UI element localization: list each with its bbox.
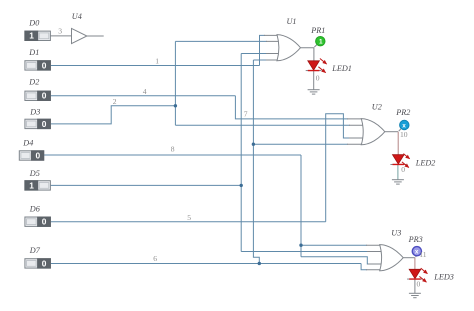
svg-text:11: 11 [419,250,427,259]
wire D0 to U4 input [50,35,71,37]
svg-text:4: 4 [143,87,147,96]
probe PR1 [310,26,325,46]
wire net8 branch to U3 pin3 [301,257,369,264]
svg-text:0: 0 [36,150,41,160]
wire net2 bottom run to U2 pin2 [175,124,350,126]
svg-text:1: 1 [155,57,159,66]
svg-text:U1: U1 [287,17,297,26]
wire U2 pin4 branch [253,143,348,145]
junction node net2 [174,104,177,107]
switch D4 value 0 [19,139,43,161]
svg-text:D3: D3 [29,107,40,116]
wire U2 output drop to LED2 [397,132,399,155]
led LED1 [306,59,352,73]
svg-text:x: x [415,249,419,256]
svg-text:1: 1 [29,31,34,41]
junction node net8 [299,244,302,247]
svg-text:PR1: PR1 [310,26,325,35]
ground below LED1 [308,90,320,94]
svg-text:0: 0 [42,119,47,129]
svg-text:0: 0 [417,279,421,288]
svg-text:1: 1 [29,180,34,190]
pin stubs U3 [366,245,382,270]
svg-text:D6: D6 [29,205,41,214]
svg-text:6: 6 [153,254,157,263]
wire net5 D6 horizontal [50,221,326,223]
svg-text:U3: U3 [391,229,401,238]
svg-text:LED2: LED2 [415,159,436,168]
wire D5 branch to U3 pin2 [241,251,368,253]
or-gate U1 [277,17,301,61]
led LED3 [407,268,454,282]
wire U3 output [403,257,415,259]
wire net1 D1 horizontal [50,64,259,66]
ground below LED3 [409,293,421,297]
wire net2 vertical trunk [174,41,176,125]
svg-text:LED3: LED3 [433,272,454,281]
switch D3 value 0 [25,107,51,128]
wire net8 branch to U3 pin1 [301,244,367,246]
switch D6 value 0 [25,205,51,227]
svg-text:x: x [402,123,406,130]
wire D5 horizontal to junction [50,184,241,186]
wire net5 riser and run to U2 pin3 [326,114,350,222]
wire net4 drop and run to U2 pin1 [235,96,348,119]
wire LED2 cathode to ground [397,164,399,179]
svg-text:D0: D0 [28,18,39,27]
wire net6 drop to U3 pin4 [361,263,367,269]
wire net2 top run to U1 pin2 [175,40,267,42]
switch D1 value 0 [25,48,51,70]
wire D5 branch to U1 pin3 [241,53,267,55]
wire U1 pin4 branch [253,59,267,61]
svg-text:U4: U4 [72,12,82,21]
pin stubs U2 [347,119,364,144]
wire U1 output to LED1 [301,48,314,61]
svg-text:0: 0 [401,165,405,174]
switch D2 value 0 [25,78,51,101]
svg-text:0: 0 [42,258,47,268]
svg-text:D5: D5 [29,169,40,178]
pin stubs U1 [264,35,280,60]
wire net8 vertical [300,155,302,257]
svg-text:D4: D4 [22,139,33,148]
svg-text:D2: D2 [28,78,39,87]
svg-text:D7: D7 [29,246,41,255]
svg-text:10: 10 [400,130,408,139]
switch D0 value 1 [25,18,51,40]
svg-text:0: 0 [316,73,320,82]
ground below LED2 [392,180,404,184]
svg-text:PR2: PR2 [395,108,410,117]
probe stub PR2 [399,129,401,131]
or-gate U3 [380,229,404,271]
switch D5 value 1 [25,169,51,191]
svg-text:LED1: LED1 [331,64,352,73]
svg-text:D1: D1 [28,48,39,57]
svg-text:PR3: PR3 [408,235,423,244]
probe PR3 [408,235,423,256]
svg-text:U2: U2 [372,103,382,112]
wire U4 output stub [87,35,104,37]
wire LED3 cathode to ground [414,279,416,293]
wire U1 pin4 vertical with jog to net6 [253,60,259,263]
probe PR2 [395,108,410,130]
wire net2 D3 to junction [50,106,175,124]
wire U2 output [385,131,398,133]
svg-text:7: 7 [244,110,248,119]
wire LED1 cathode to ground [313,70,315,89]
wire net6 D7 horizontal [50,262,361,264]
svg-text:8: 8 [171,144,175,153]
wire net1 riser to U1 pin1 [260,35,266,65]
svg-text:1: 1 [319,39,323,46]
wire net4 D2 to corner [50,95,235,97]
junction node D5 [240,184,243,187]
svg-text:3: 3 [58,27,62,36]
svg-text:0: 0 [42,60,47,70]
svg-text:0: 0 [42,91,47,101]
wire D5 vertical trunk [240,54,242,252]
or-gate U2 [361,103,385,145]
wire U3 output drop to LED3 [414,258,416,270]
op buffer U4 [72,12,87,43]
junction node net6 [258,262,261,265]
probe stub PR3 [416,255,418,257]
wire net8 D4 horizontal [44,154,301,156]
switch D7 value 0 [25,246,51,268]
svg-text:2: 2 [113,97,117,106]
svg-text:5: 5 [187,213,191,222]
svg-text:0: 0 [42,217,47,227]
junction node U2 pin4 net [252,143,255,146]
probe stub PR1 [314,44,317,47]
led LED2 [390,154,435,168]
